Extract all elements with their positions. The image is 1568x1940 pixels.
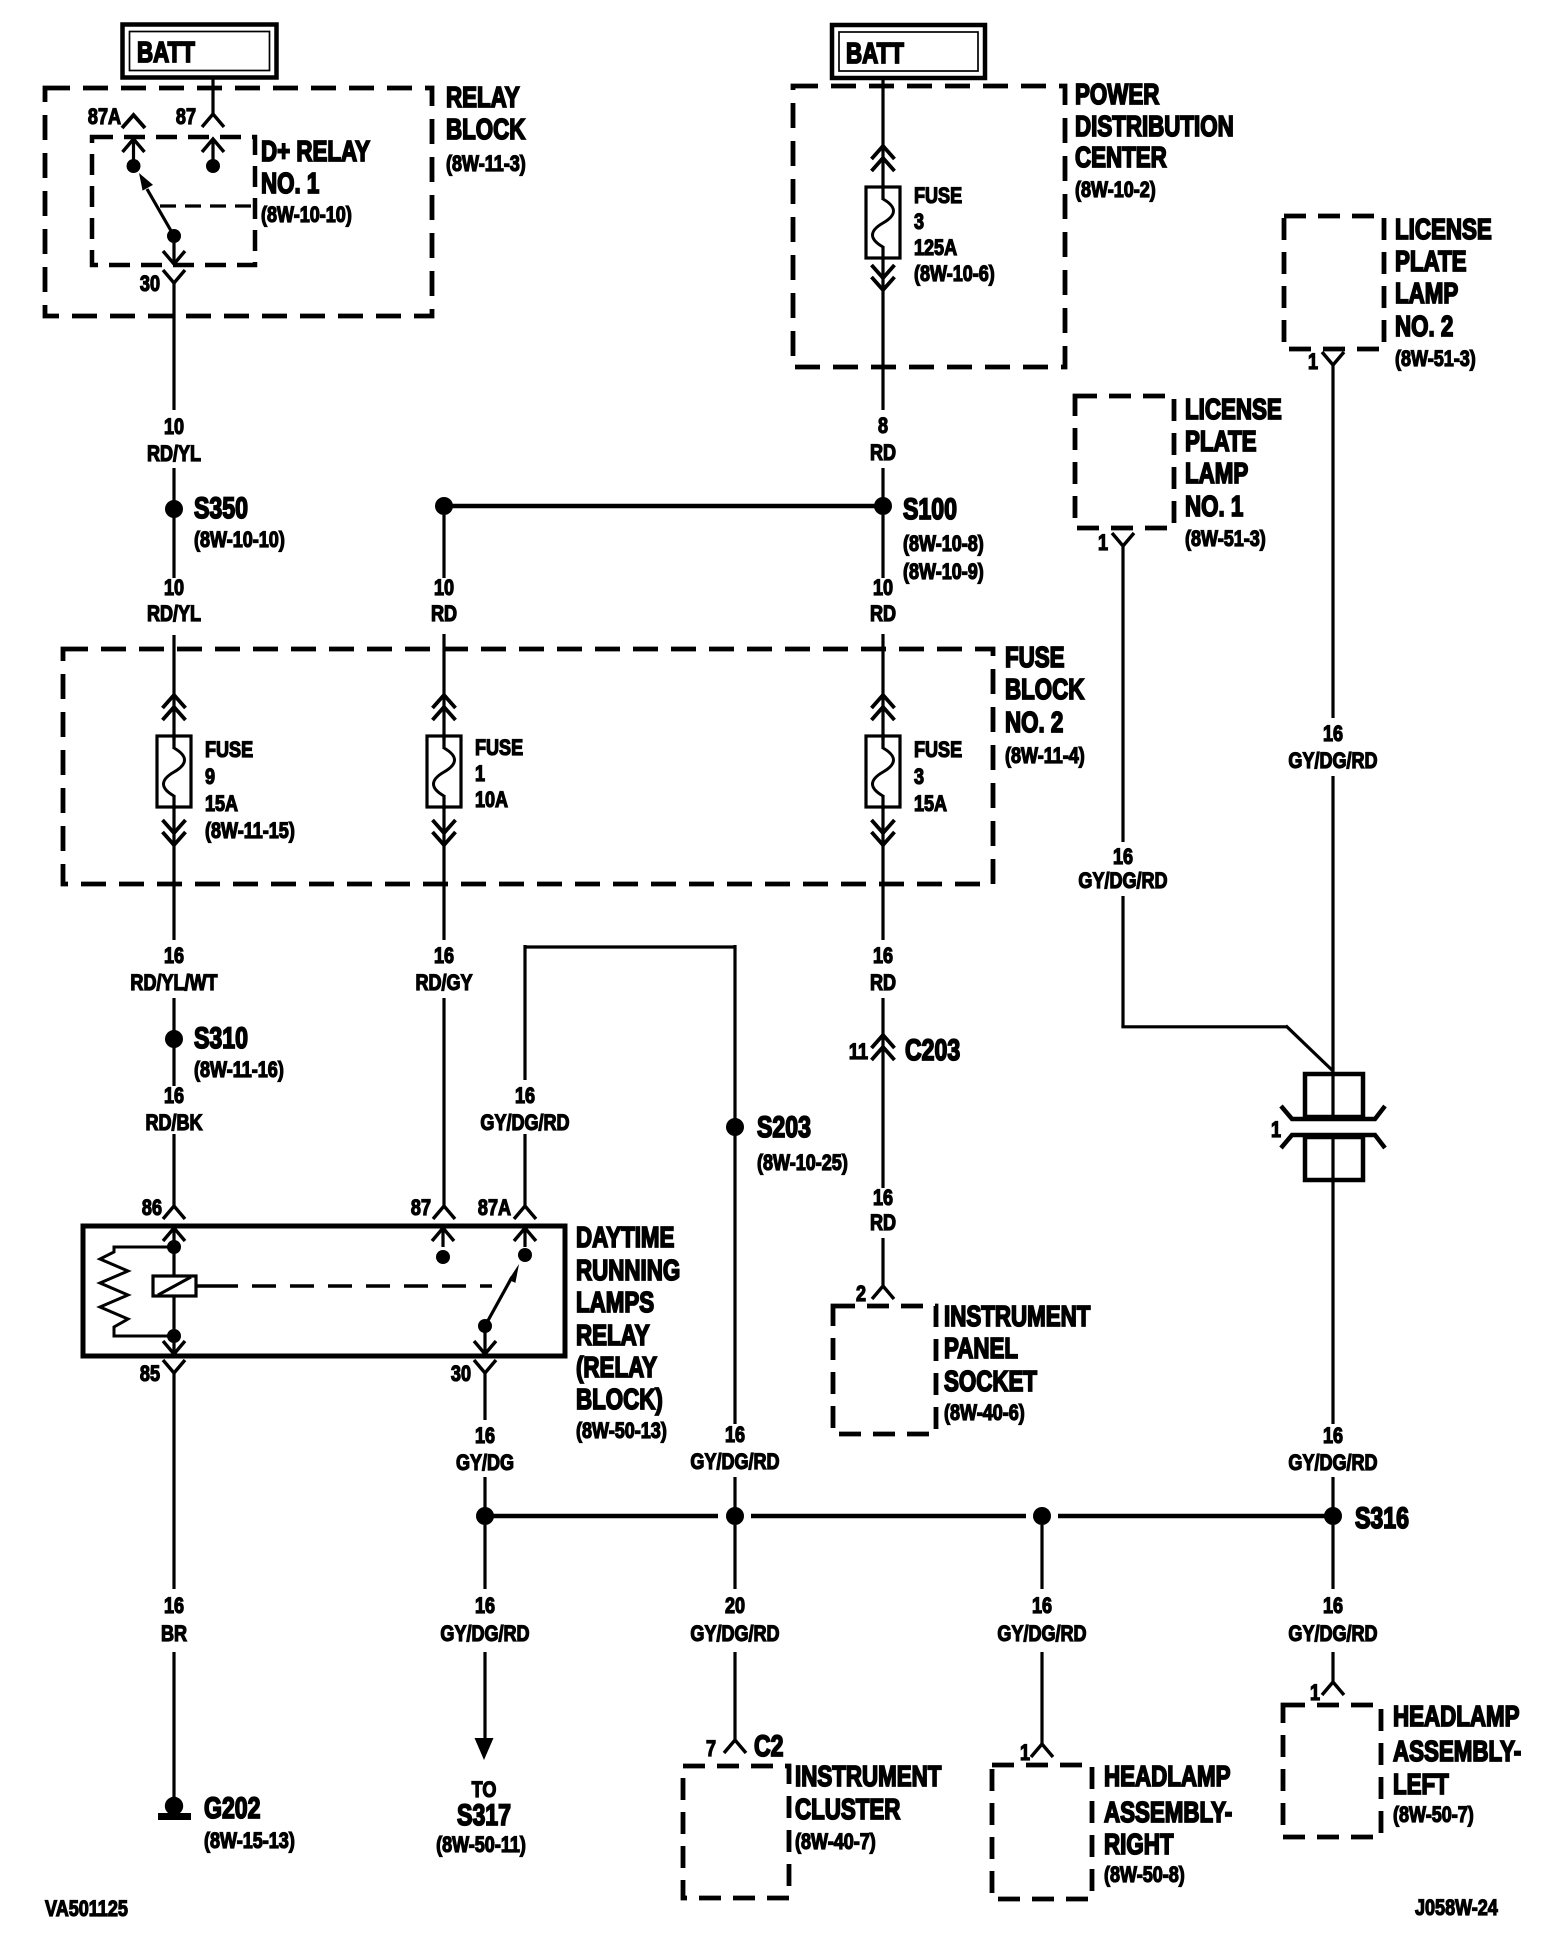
bus S100 to fuse 1 branch	[444, 504, 883, 509]
svg-text:LAMP: LAMP	[1395, 278, 1458, 309]
svg-text:15A: 15A	[205, 792, 238, 816]
junction dot above fuse 1	[435, 497, 453, 515]
svg-text:125A: 125A	[914, 236, 957, 260]
connector chevrons into fuse 9	[163, 695, 186, 708]
svg-text:BR: BR	[161, 1622, 187, 1646]
headlamp assembly right dashed box	[992, 1765, 1092, 1899]
svg-text:RD: RD	[870, 441, 896, 465]
svg-text:1: 1	[1098, 531, 1108, 555]
svg-text:FUSE: FUSE	[914, 738, 962, 762]
svg-text:87A: 87A	[478, 1196, 511, 1220]
svg-text:GY/DG/RD: GY/DG/RD	[1078, 869, 1167, 893]
wire to headlamp right	[1040, 1525, 1043, 1589]
relay pin 87 internal	[441, 1228, 444, 1247]
wire segment	[172, 517, 175, 578]
svg-text:S317: S317	[457, 1798, 511, 1832]
wire relay to S350	[172, 283, 175, 410]
svg-text:BATT: BATT	[846, 38, 904, 69]
svg-text:BLOCK: BLOCK	[446, 114, 526, 145]
terminal 87 connector DRL	[433, 1206, 455, 1219]
wire segment	[1331, 1652, 1334, 1682]
svg-text:RD: RD	[870, 971, 896, 995]
svg-text:3: 3	[914, 210, 924, 234]
inline connector 1 upper half	[1305, 1074, 1363, 1117]
svg-text:3: 3	[914, 765, 924, 789]
connector C203 chevrons	[872, 1035, 895, 1048]
svg-text:CLUSTER: CLUSTER	[795, 1794, 901, 1825]
junction dot bus left	[476, 1507, 494, 1525]
svg-text:(RELAY: (RELAY	[576, 1352, 657, 1383]
svg-text:2: 2	[856, 1282, 866, 1306]
svg-text:GY/DG/RD: GY/DG/RD	[690, 1622, 779, 1646]
svg-text:16: 16	[164, 944, 184, 968]
splice S316	[1324, 1507, 1342, 1525]
svg-text:ASSEMBLY-: ASSEMBLY-	[1104, 1797, 1232, 1828]
svg-text:FUSE: FUSE	[205, 738, 253, 762]
svg-text:S203: S203	[757, 1110, 811, 1144]
wire to instrument panel socket	[881, 1238, 884, 1286]
ground G202	[165, 1797, 183, 1815]
terminal 85 connector	[163, 1360, 185, 1373]
svg-text:87: 87	[176, 105, 196, 129]
svg-text:16: 16	[1032, 1594, 1052, 1618]
terminal 1 connector HL left	[1322, 1682, 1344, 1695]
svg-text:RD/GY: RD/GY	[415, 971, 473, 995]
wire to relay 86	[172, 1134, 175, 1206]
svg-text:1: 1	[1271, 1118, 1281, 1142]
svg-text:GY/DG: GY/DG	[456, 1451, 514, 1475]
svg-text:(8W-10-10): (8W-10-10)	[194, 528, 285, 552]
svg-text:7: 7	[706, 1737, 716, 1761]
svg-text:POWER: POWER	[1075, 79, 1160, 110]
terminal 7 connector C2	[724, 1740, 746, 1753]
connector chevrons out of fuse 1	[442, 805, 445, 884]
svg-text:9: 9	[205, 765, 215, 789]
svg-text:BATT: BATT	[137, 37, 195, 68]
svg-text:G202: G202	[204, 1791, 261, 1825]
terminal 1 connector LP2	[1322, 352, 1344, 365]
wire to relay 87A	[523, 1134, 526, 1206]
svg-text:10: 10	[434, 576, 454, 600]
svg-text:16: 16	[1323, 722, 1343, 746]
svg-text:C2: C2	[754, 1729, 784, 1763]
svg-text:1: 1	[1310, 1681, 1320, 1705]
relay coil	[172, 1247, 175, 1276]
battery feed box BATT (power distribution center)	[832, 25, 985, 78]
svg-text:J058W-24: J058W-24	[1415, 1896, 1499, 1920]
svg-text:RELAY: RELAY	[446, 82, 520, 113]
svg-text:16: 16	[475, 1594, 495, 1618]
svg-text:GY/DG/RD: GY/DG/RD	[1288, 1451, 1377, 1475]
wire down to S203	[733, 945, 736, 1119]
svg-text:10A: 10A	[475, 788, 508, 812]
svg-text:INSTRUMENT: INSTRUMENT	[795, 1761, 942, 1792]
fuse block No.2 dashed box	[63, 649, 993, 884]
svg-text:(8W-11-4): (8W-11-4)	[1005, 744, 1085, 768]
wire segment to bus	[733, 1477, 736, 1516]
svg-text:FUSE: FUSE	[1005, 642, 1065, 673]
wire to fuse 9	[172, 635, 175, 740]
battery feed box BATT (relay block)	[123, 25, 277, 78]
svg-text:SOCKET: SOCKET	[944, 1366, 1037, 1397]
svg-text:GY/DG/RD: GY/DG/RD	[997, 1622, 1086, 1646]
terminal 2 connector	[872, 1286, 894, 1299]
junction dot bus headlamp right branch	[1033, 1507, 1051, 1525]
svg-text:8: 8	[878, 414, 888, 438]
svg-text:LAMPS: LAMPS	[576, 1287, 654, 1318]
svg-text:S100: S100	[903, 492, 957, 526]
svg-text:(8W-10-9): (8W-10-9)	[903, 560, 984, 584]
wire BATT to fuse 3 PDC	[881, 77, 884, 188]
svg-text:DISTRIBUTION: DISTRIBUTION	[1075, 111, 1234, 142]
power distribution center dashed box	[793, 86, 1065, 367]
wire fuse 3 down	[881, 258, 884, 410]
svg-text:D+ RELAY: D+ RELAY	[261, 136, 370, 167]
relay pin 30 arrow	[483, 1326, 486, 1354]
svg-text:RD/YL/WT: RD/YL/WT	[130, 971, 218, 995]
svg-text:RUNNING: RUNNING	[576, 1255, 680, 1286]
svg-text:FUSE: FUSE	[914, 184, 962, 208]
svg-text:1: 1	[1020, 1741, 1030, 1765]
splice S100	[874, 497, 892, 515]
wire segment	[172, 1652, 175, 1799]
svg-text:LICENSE: LICENSE	[1395, 214, 1492, 245]
svg-text:LICENSE: LICENSE	[1185, 394, 1282, 425]
connector chevrons into fuse 3 block2	[872, 695, 895, 708]
svg-text:NO. 2: NO. 2	[1005, 707, 1063, 738]
svg-text:16: 16	[873, 1186, 893, 1210]
svg-text:C203: C203	[905, 1033, 960, 1067]
svg-text:(8W-10-2): (8W-10-2)	[1075, 178, 1156, 202]
svg-text:20: 20	[725, 1594, 745, 1618]
relay linkage dashed line	[196, 1284, 214, 1287]
svg-text:(8W-40-6): (8W-40-6)	[944, 1401, 1025, 1425]
svg-text:GY/DG/RD: GY/DG/RD	[1288, 1622, 1377, 1646]
svg-text:16: 16	[1323, 1594, 1343, 1618]
svg-text:S316: S316	[1355, 1501, 1409, 1535]
svg-text:(8W-10-25): (8W-10-25)	[757, 1151, 848, 1175]
svg-text:16: 16	[873, 944, 893, 968]
wire to instrument cluster	[733, 1525, 736, 1589]
terminal 30 connector DRL	[474, 1360, 496, 1373]
svg-text:BLOCK: BLOCK	[1005, 674, 1085, 705]
svg-text:10: 10	[873, 576, 893, 600]
svg-text:(8W-51-3): (8W-51-3)	[1395, 347, 1476, 371]
fuse 3 15A block2	[881, 734, 884, 749]
headlamp assembly left dashed box	[1283, 1705, 1381, 1837]
wire segment to connector	[1331, 776, 1334, 1076]
wire fuse3 down	[881, 884, 884, 940]
svg-text:(8W-50-7): (8W-50-7)	[1393, 1803, 1474, 1827]
svg-text:RD: RD	[431, 602, 457, 626]
relay pin 30 arrow	[172, 236, 175, 264]
daytime running lamps relay box	[83, 1226, 565, 1356]
wire segment	[172, 998, 175, 1031]
svg-text:(8W-50-11): (8W-50-11)	[436, 1833, 526, 1857]
svg-text:15A: 15A	[914, 792, 947, 816]
license plate lamp No.2 dashed box	[1284, 216, 1384, 349]
svg-text:(8W-11-16): (8W-11-16)	[194, 1058, 284, 1082]
connector chevrons out of PDC	[872, 277, 895, 290]
splice S203	[726, 1118, 744, 1136]
svg-text:(8W-11-15): (8W-11-15)	[205, 819, 295, 843]
svg-text:16: 16	[164, 1084, 184, 1108]
svg-text:16: 16	[725, 1423, 745, 1447]
wire segment	[172, 1047, 175, 1086]
wire 85 to ground	[172, 1373, 175, 1589]
svg-text:(8W-10-10): (8W-10-10)	[261, 203, 352, 227]
svg-text:RD: RD	[870, 1211, 896, 1235]
svg-text:BLOCK): BLOCK)	[576, 1384, 663, 1415]
svg-text:30: 30	[451, 1362, 471, 1386]
svg-text:GY/DG/RD: GY/DG/RD	[440, 1622, 529, 1646]
relay pin 85 arrow	[172, 1336, 175, 1354]
wire LP2 down	[1331, 365, 1334, 718]
svg-text:PLATE: PLATE	[1395, 246, 1467, 277]
wire to relay 87	[442, 998, 445, 1206]
svg-text:16: 16	[434, 944, 454, 968]
svg-text:11: 11	[849, 1040, 868, 1064]
svg-text:RD/YL: RD/YL	[147, 602, 201, 626]
svg-text:S350: S350	[194, 491, 248, 525]
svg-text:FUSE: FUSE	[475, 736, 523, 760]
wire segment	[733, 1652, 736, 1740]
inline connector 1 lower half	[1281, 1135, 1385, 1148]
svg-text:NO. 1: NO. 1	[261, 168, 319, 199]
svg-text:RD: RD	[870, 602, 896, 626]
svg-text:16: 16	[164, 1594, 184, 1618]
relay coil resistor	[100, 1247, 174, 1336]
wire through C203	[881, 998, 884, 1188]
svg-text:16: 16	[475, 1424, 495, 1448]
svg-text:VA501125: VA501125	[45, 1897, 128, 1921]
wire 87A branch vertical	[523, 945, 526, 1080]
svg-text:(8W-50-8): (8W-50-8)	[1104, 1863, 1185, 1887]
svg-text:(8W-11-3): (8W-11-3)	[446, 152, 526, 176]
svg-text:87: 87	[411, 1196, 431, 1220]
wire LP1 down	[1121, 546, 1124, 842]
svg-text:ASSEMBLY-: ASSEMBLY-	[1393, 1736, 1521, 1767]
svg-text:(8W-40-7): (8W-40-7)	[795, 1830, 876, 1854]
wire label 10 RD (fuse3 branch)	[881, 515, 884, 578]
wire label 10 RD (fuse1 branch)	[442, 515, 445, 578]
wire to headlamp left	[1331, 1525, 1334, 1589]
wire 30 down	[483, 1373, 486, 1420]
svg-text:GY/DG/RD: GY/DG/RD	[480, 1111, 569, 1135]
terminal 87 connector	[202, 114, 224, 127]
svg-text:PLATE: PLATE	[1185, 426, 1257, 457]
svg-text:16: 16	[515, 1084, 535, 1108]
wire segment	[483, 1652, 486, 1739]
wire fuse9 down	[172, 884, 175, 940]
wire S203 branch horizontal	[525, 945, 735, 948]
svg-text:86: 86	[142, 1196, 162, 1220]
fuse 3 125A (8W-10-6)	[881, 185, 884, 200]
instrument panel socket dashed box	[833, 1306, 936, 1434]
svg-text:NO. 2: NO. 2	[1395, 311, 1453, 342]
relay block dashed box	[45, 88, 432, 316]
relay switch arm	[485, 1277, 512, 1326]
wire through inline connector	[1331, 1074, 1334, 1117]
wire fuse1 down	[442, 884, 445, 940]
wire segment	[881, 468, 884, 501]
relay pin 87A internal	[523, 1228, 526, 1247]
svg-text:10: 10	[164, 576, 184, 600]
splice S310	[165, 1030, 183, 1048]
fuse 9 15A (8W-11-15)	[172, 734, 175, 749]
D+ relay linkage dashed line	[160, 204, 253, 207]
wire segment	[1040, 1652, 1043, 1744]
svg-text:S310: S310	[194, 1021, 248, 1055]
svg-text:HEADLAMP: HEADLAMP	[1104, 1761, 1231, 1792]
svg-text:(8W-10-6): (8W-10-6)	[914, 262, 995, 286]
connector chevrons into fuse 1	[433, 695, 456, 708]
svg-text:87A: 87A	[88, 105, 121, 129]
svg-text:(8W-10-8): (8W-10-8)	[903, 532, 984, 556]
svg-text:10: 10	[164, 415, 184, 439]
svg-text:DAYTIME: DAYTIME	[576, 1222, 674, 1253]
bottom bus S316	[485, 1514, 718, 1519]
terminal 30 connector	[163, 270, 185, 283]
wire segment	[172, 468, 175, 501]
svg-text:RD/YL: RD/YL	[147, 442, 201, 466]
wire segment to S316	[1331, 1477, 1334, 1516]
splice S350	[165, 500, 183, 518]
terminal 87A connector DRL	[514, 1206, 536, 1219]
svg-text:HEADLAMP: HEADLAMP	[1393, 1701, 1520, 1732]
wire S203 down	[733, 1135, 736, 1424]
terminal 1 connector HL right	[1031, 1744, 1053, 1757]
svg-text:GY/DG/RD: GY/DG/RD	[1288, 749, 1377, 773]
wire LP1 to inline connector	[1121, 896, 1124, 1027]
svg-text:RD/BK: RD/BK	[145, 1111, 203, 1135]
license plate lamp No.1 dashed box	[1075, 396, 1174, 528]
svg-text:LAMP: LAMP	[1185, 458, 1248, 489]
svg-text:(8W-51-3): (8W-51-3)	[1185, 527, 1266, 551]
svg-text:RIGHT: RIGHT	[1104, 1829, 1174, 1860]
connector chevrons out of fuse 9	[172, 805, 175, 884]
svg-text:GY/DG/RD: GY/DG/RD	[690, 1450, 779, 1474]
fuse 1 10A	[442, 734, 445, 749]
svg-text:(8W-15-13): (8W-15-13)	[204, 1829, 295, 1853]
wire BATT to relay 87	[211, 77, 214, 114]
arrow to S317	[475, 1738, 494, 1760]
D+ relay switch arm	[147, 189, 174, 236]
svg-text:INSTRUMENT: INSTRUMENT	[944, 1301, 1091, 1332]
relay contact pin 87	[211, 139, 214, 166]
svg-text:1: 1	[1308, 350, 1318, 374]
D+ relay No.1 dashed box	[92, 137, 255, 265]
terminal 87A chevron	[122, 115, 145, 128]
svg-text:CENTER: CENTER	[1075, 142, 1167, 173]
svg-text:85: 85	[140, 1362, 160, 1386]
svg-text:16: 16	[1323, 1424, 1343, 1448]
svg-text:NO. 1: NO. 1	[1185, 491, 1243, 522]
terminal 86 connector	[163, 1206, 185, 1219]
svg-text:PANEL: PANEL	[944, 1333, 1018, 1364]
svg-text:(8W-50-13): (8W-50-13)	[576, 1419, 667, 1443]
svg-text:RELAY: RELAY	[576, 1320, 650, 1351]
terminal 1 connector LP1	[1112, 533, 1134, 546]
wire segment to bus	[483, 1477, 486, 1516]
connector chevrons out of fuse 3 block2	[881, 805, 884, 884]
svg-text:1: 1	[475, 762, 485, 786]
wire to S317	[483, 1525, 486, 1589]
relay pin 86 internal	[172, 1228, 175, 1247]
svg-text:30: 30	[140, 272, 160, 296]
relay contact pin 87A	[132, 139, 135, 166]
connector chevrons into PDC	[872, 146, 895, 159]
svg-text:LEFT: LEFT	[1393, 1769, 1449, 1800]
instrument cluster dashed box	[683, 1766, 789, 1898]
junction dot bus S203 branch	[726, 1507, 744, 1525]
svg-text:16: 16	[1113, 845, 1133, 869]
